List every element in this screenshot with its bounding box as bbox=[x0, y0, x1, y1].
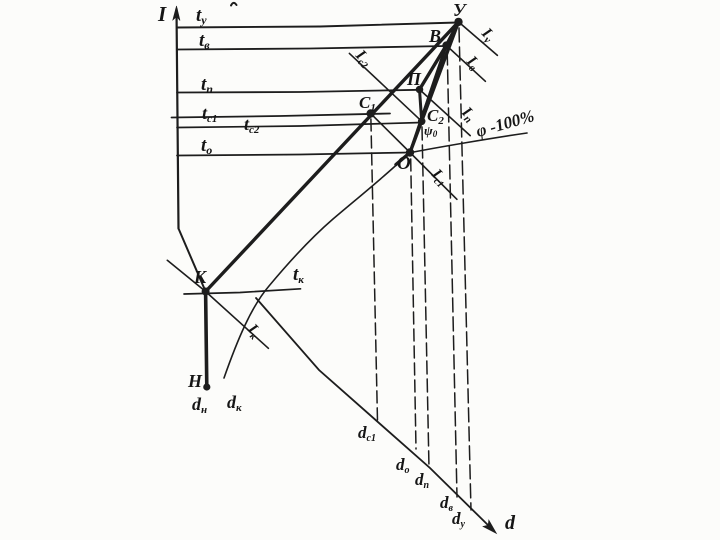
svg-text:dу: dу bbox=[452, 509, 466, 530]
svg-text:О: О bbox=[397, 153, 411, 174]
wire t_c1 horizontal line bbox=[172, 114, 391, 118]
line P-C2 thick bbox=[420, 90, 422, 122]
wire t_v horizontal line bbox=[177, 46, 447, 50]
svg-text:Iс1: Iс1 bbox=[426, 165, 451, 190]
svg-text:Iв: Iв bbox=[461, 52, 483, 74]
axis d diagonal bbox=[256, 298, 493, 530]
axis bend segment to K bbox=[179, 229, 206, 292]
svg-text:tу: tу bbox=[196, 5, 207, 27]
axis I arrowhead bbox=[173, 6, 180, 21]
dashed vertical from V to d axis bbox=[447, 51, 457, 497]
node C1 dot bbox=[367, 109, 375, 117]
svg-text:tв: tв bbox=[199, 30, 210, 52]
wire t_k horizontal line bbox=[184, 289, 301, 294]
wire t_y horizontal line bbox=[177, 23, 458, 28]
svg-text:tс2: tс2 bbox=[244, 114, 260, 136]
node C2 dot bbox=[418, 118, 426, 126]
line K-N heating thick bbox=[206, 292, 207, 388]
svg-text:С1: С1 bbox=[359, 93, 376, 114]
node U dot bbox=[454, 18, 462, 26]
dashed vertical from O to d axis bbox=[411, 159, 416, 449]
line U-V-P thick bbox=[420, 22, 459, 90]
node O dot bbox=[406, 148, 414, 156]
svg-text:У: У bbox=[453, 0, 468, 20]
dashed vertical from U to d axis bbox=[459, 28, 471, 510]
svg-text:tс1: tс1 bbox=[202, 103, 217, 125]
enthalpy line I_c1 through O bbox=[371, 114, 457, 200]
axis d arrowhead bbox=[483, 520, 497, 533]
svg-text:К: К bbox=[193, 267, 208, 287]
dashed vertical from C2 to d axis bbox=[422, 127, 429, 468]
svg-text:tо: tо bbox=[201, 135, 212, 157]
line U-C2-O thick bbox=[396, 22, 459, 165]
stray pen mark top bbox=[231, 3, 237, 6]
svg-text:dс1: dс1 bbox=[358, 423, 376, 444]
node V dot bbox=[442, 41, 450, 49]
svg-text:tк: tк bbox=[293, 264, 304, 286]
curve phi 100% saturation bbox=[224, 133, 527, 378]
wire t_p horizontal line bbox=[177, 90, 420, 93]
axis I vertical line bbox=[177, 9, 179, 229]
dashed vertical from C1 to d axis bbox=[371, 119, 378, 421]
svg-text:d: d bbox=[505, 512, 516, 534]
enthalpy line I_u bbox=[459, 22, 498, 56]
svg-text:Iс2: Iс2 bbox=[350, 46, 375, 71]
enthalpy line I_k through K bbox=[167, 260, 268, 348]
svg-text:dп: dп bbox=[415, 470, 430, 491]
svg-text:Iу: Iу bbox=[476, 24, 498, 46]
line K-U mixing thick bbox=[206, 22, 459, 292]
node P dot bbox=[416, 86, 424, 94]
svg-text:dк: dк bbox=[227, 392, 242, 414]
svg-text:I: I bbox=[157, 2, 167, 26]
enthalpy line I_v bbox=[446, 45, 485, 81]
svg-text:П: П bbox=[406, 69, 422, 89]
svg-text:В: В bbox=[428, 26, 441, 46]
svg-text:dо: dо bbox=[396, 455, 410, 476]
enthalpy line I_c2 bbox=[349, 53, 421, 121]
svg-text:tп: tп bbox=[201, 74, 213, 96]
svg-text:Н: Н bbox=[187, 371, 203, 391]
node K dot bbox=[202, 288, 210, 296]
wire t_o horizontal line bbox=[177, 153, 410, 156]
line V-O thick bbox=[410, 45, 446, 152]
node N dot bbox=[203, 383, 210, 390]
svg-text:dн: dн bbox=[192, 394, 207, 416]
svg-text:ψ0: ψ0 bbox=[424, 123, 438, 139]
enthalpy line I_p bbox=[420, 90, 471, 136]
wire t_c2 horizontal line bbox=[177, 123, 422, 128]
